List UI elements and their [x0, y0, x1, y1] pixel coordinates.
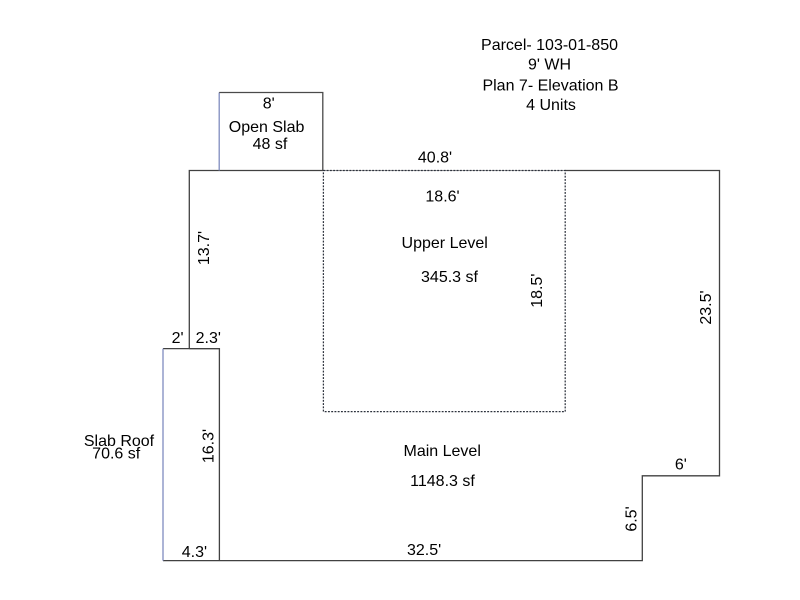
wire top edge right segment 565-720 and right wall [163, 171, 720, 561]
svg-text:Open Slab: Open Slab [229, 119, 305, 136]
header text block [481, 37, 619, 114]
open slab rectangle [219, 93, 323, 171]
svg-text:48 sf: 48 sf [253, 136, 288, 153]
svg-text:2.3': 2.3' [196, 330, 221, 347]
svg-text:70.6 sf: 70.6 sf [92, 446, 141, 463]
svg-text:9' WH: 9' WH [528, 57, 571, 74]
wire slab roof right wall [189, 349, 219, 561]
svg-text:16.3': 16.3' [201, 429, 218, 463]
svg-text:40.8': 40.8' [418, 150, 452, 167]
svg-text:4 Units: 4 Units [526, 97, 576, 114]
svg-text:1148.3 sf: 1148.3 sf [410, 473, 475, 490]
svg-text:Plan 7- Elevation B: Plan 7- Elevation B [482, 78, 618, 95]
main level outline [163, 171, 720, 561]
svg-text:13.7': 13.7' [196, 231, 213, 265]
upper level dashed rectangle [323, 171, 565, 412]
svg-text:Upper Level: Upper Level [402, 235, 488, 252]
svg-text:2': 2' [172, 330, 184, 347]
svg-text:23.5': 23.5' [698, 290, 715, 324]
wire faint covered top edge under dashes [323, 170, 565, 172]
svg-text:4.3': 4.3' [182, 544, 207, 561]
svg-text:18.5': 18.5' [529, 274, 546, 308]
svg-text:Main Level: Main Level [404, 443, 481, 460]
wire top edge left segment 189-323 [189, 171, 323, 349]
svg-text:18.6': 18.6' [425, 189, 459, 206]
slab roof rectangle [162, 349, 164, 561]
svg-text:32.5': 32.5' [407, 542, 441, 559]
wire slab roof top edge [163, 348, 219, 350]
svg-text:Parcel- 103-01-850: Parcel- 103-01-850 [481, 37, 618, 54]
svg-text:6.5': 6.5' [624, 506, 641, 531]
svg-text:8': 8' [263, 96, 275, 113]
svg-text:345.3 sf: 345.3 sf [421, 269, 478, 286]
svg-text:6': 6' [675, 457, 687, 474]
